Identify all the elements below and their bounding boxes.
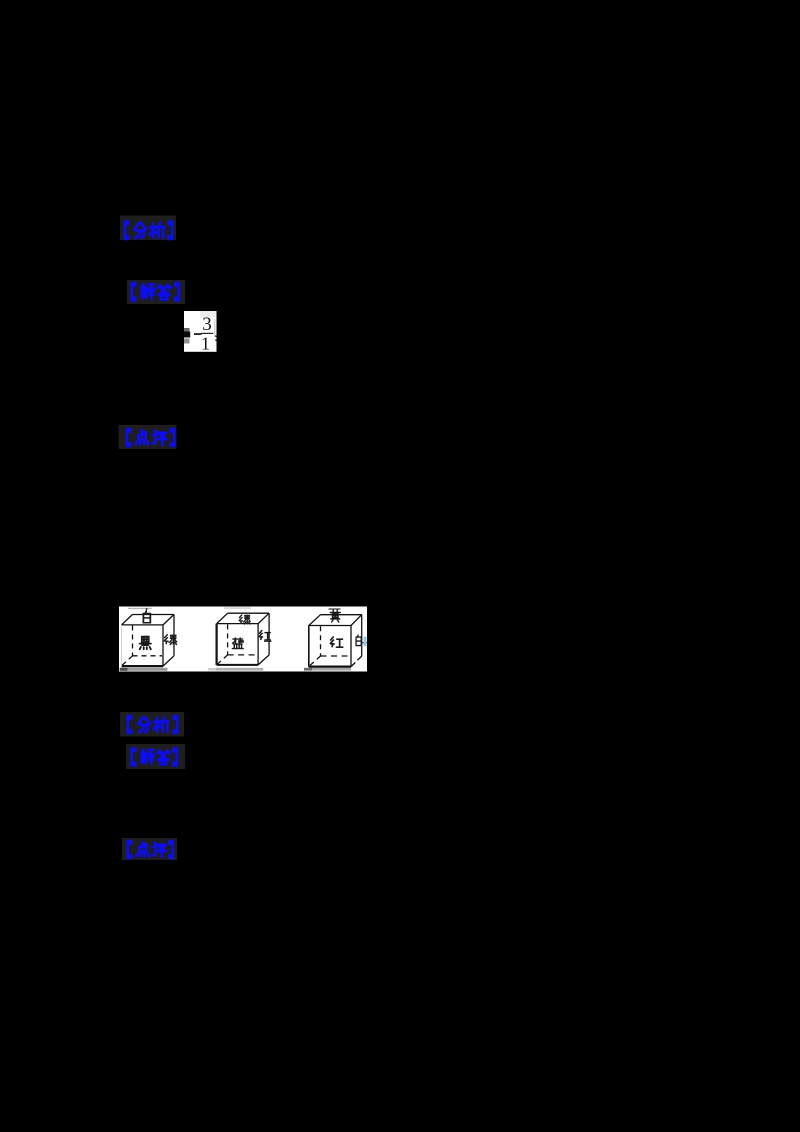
cube 2 shadow — [208, 668, 216, 671]
heading halo 2 — [127, 280, 185, 304]
cube 2 front label 蓝 — [232, 638, 243, 649]
svg-text:3: 3 — [202, 314, 212, 335]
heading halo 3 — [119, 425, 177, 449]
heading 【分析】 #2 — [128, 717, 177, 732]
cube 3 edges — [308, 615, 362, 668]
faint streak above cube 2 — [224, 607, 251, 609]
cube 3 right small line — [362, 642, 368, 644]
heading halo 5 — [126, 744, 185, 769]
heading halo 4 — [120, 712, 184, 737]
dark tick above cube 1 白 — [146, 608, 147, 613]
cube figure strip (white background) — [119, 607, 367, 672]
heading 【解答】 #1 — [132, 284, 179, 299]
cube 3 shadow — [304, 668, 312, 671]
cube 1 shadow — [120, 668, 128, 671]
svg-text:1: 1 — [201, 333, 210, 353]
heading 【分析】 #1 — [125, 223, 172, 238]
cube 1 front label 黑 — [140, 637, 151, 650]
cube 1 edges — [121, 615, 174, 667]
cube 3 right label 白 — [356, 635, 361, 645]
cube 3 front label 红 — [330, 637, 342, 647]
cube 3 blue mark — [364, 637, 367, 646]
dark bar above cube 3 黄 — [329, 608, 341, 609]
cube 2 top label 绿 — [239, 615, 250, 624]
faint streak above cube 1 — [128, 608, 152, 609]
equation image (white box with =3/1 fraction) — [184, 311, 217, 353]
heading halo 6 — [122, 838, 177, 860]
cube 1 right label 绿 — [164, 635, 176, 645]
cube 2 right small line — [264, 640, 272, 642]
heading halo 1 — [120, 216, 176, 241]
heading 【点评】 #1 — [127, 430, 174, 445]
cube 2 right label 红 — [259, 631, 270, 640]
heading 【解答】 #2 — [132, 750, 177, 765]
cube 1 top label 白 — [143, 612, 150, 623]
heading 【点评】 #2 — [128, 842, 173, 857]
cube 3 top label 黄 — [330, 610, 340, 622]
cube 2 edges — [216, 613, 269, 665]
